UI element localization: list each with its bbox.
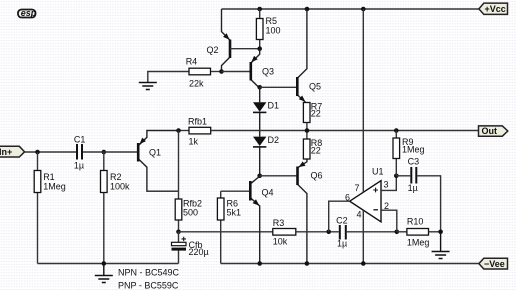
svg-text:PNP - BC559C: PNP - BC559C — [118, 280, 179, 290]
resistor R9 — [393, 131, 425, 176]
svg-text:5k1: 5k1 — [227, 208, 242, 218]
junction dot output node R7/R8 — [305, 128, 310, 133]
wire Q1 emitter node to Rfb1 — [179, 130, 190, 132]
junction dot Rfb2 / Cfb / feedback line — [176, 230, 181, 235]
junction dot R2 top — [102, 150, 107, 155]
svg-text:−Vee: −Vee — [484, 259, 505, 269]
ESP logo — [18, 8, 37, 18]
resistor R4 — [148, 57, 222, 89]
svg-text:220µ: 220µ — [189, 247, 209, 257]
resistor Rfb2 — [175, 131, 202, 232]
capacitor C2 — [336, 216, 348, 249]
svg-text:R10: R10 — [407, 217, 424, 227]
resistor R7 — [303, 101, 322, 130]
diode D2 — [253, 135, 279, 176]
junction dot C2 / U1 pin6 feedback — [326, 230, 331, 235]
ground symbol (R10/C3) — [432, 232, 450, 259]
svg-text:1µ: 1µ — [337, 239, 347, 249]
svg-text:Q4: Q4 — [262, 188, 274, 198]
svg-text:In+: In+ — [0, 147, 12, 157]
svg-text:22: 22 — [311, 108, 321, 118]
Out tag — [479, 126, 508, 136]
svg-text:22k: 22k — [189, 78, 204, 88]
wire In+ to C1 — [25, 151, 76, 153]
transistor Q1 — [138, 131, 178, 192]
ground symbol (R4) — [139, 83, 157, 90]
wire pin2 node to R10 — [397, 231, 407, 233]
wire C2 to U1 pin2 node — [347, 231, 397, 233]
wire Q3 collector node to Q5 base — [260, 86, 298, 88]
resistor Rfb1 — [188, 116, 211, 146]
svg-text:1µ: 1µ — [74, 161, 84, 171]
svg-text:R1: R1 — [43, 172, 55, 182]
wire output rail Rfb1 to Out tag — [211, 130, 479, 132]
junction dot out rail / R9 — [394, 128, 399, 133]
wire U1 pin 6 output to feedback node — [329, 201, 350, 232]
transistor Q2 — [207, 9, 231, 72]
svg-text:7: 7 — [355, 183, 360, 193]
junction dot Vee rail / Q4 emitter — [257, 261, 262, 266]
wire -Vee rail — [221, 263, 479, 265]
svg-text:R4: R4 — [186, 57, 198, 67]
junction dot Q1 emitter / Rfb1 / Rfb2 node — [176, 128, 181, 133]
resistor R8 — [303, 131, 322, 160]
wire U1 pin 7 supply from +Vcc rail — [362, 9, 364, 192]
junction node Q3 collector / D1 / Q5 base — [257, 85, 262, 90]
transistor Q3 — [251, 49, 274, 89]
svg-text:3: 3 — [384, 180, 389, 190]
svg-text:Rfb1: Rfb1 — [188, 116, 207, 126]
junction node Q2 collector / R4 / Q3 base — [219, 69, 224, 74]
resistor R6 — [217, 191, 241, 263]
wire R6 top to Q4 base — [221, 190, 251, 192]
junction dot U1 pin3 / R9 / C3 — [394, 174, 399, 179]
-Vee power tag — [479, 258, 508, 269]
svg-text:R3: R3 — [273, 218, 285, 228]
ground symbol (main) — [95, 264, 113, 283]
svg-text:NPN - BC549C: NPN - BC549C — [118, 268, 180, 278]
transistor Q5 — [297, 9, 321, 104]
+Vcc power tag — [479, 3, 508, 14]
svg-text:C1: C1 — [74, 134, 86, 144]
svg-text:esp: esp — [21, 8, 37, 18]
transistor Q4 — [250, 176, 273, 263]
svg-text:1µ: 1µ — [408, 183, 418, 193]
junction dot ground line — [102, 261, 107, 266]
junction node D2 / Q4 collector / Q6 base — [257, 174, 262, 179]
svg-text:Q2: Q2 — [207, 45, 219, 55]
transistor Q6 — [298, 159, 323, 264]
svg-text:500: 500 — [183, 208, 198, 218]
svg-text:22: 22 — [311, 145, 321, 155]
svg-text:R2: R2 — [110, 172, 122, 182]
wire U1 pin 4 supply to -Vee rail — [362, 210, 364, 263]
wire R3 to C2 — [296, 231, 339, 233]
junction node R5 bottom / Q2 base / Q3 emitter — [257, 46, 262, 51]
svg-text:1k: 1k — [189, 136, 199, 146]
wire feedback line Cfb node to R3 — [179, 231, 273, 233]
resistor R1 — [34, 152, 66, 264]
junction dot top rail / U1 pin7 — [361, 7, 366, 12]
wire Q2 base to R5/Q3 emitter node — [230, 48, 260, 50]
junction dot Vee rail / Q6 collector — [305, 261, 310, 266]
svg-text:+Vcc: +Vcc — [485, 4, 506, 14]
resistor R2 — [101, 152, 131, 264]
svg-text:Q3: Q3 — [262, 66, 274, 76]
resistor R10 — [407, 217, 441, 248]
wire U1 pin 2 — [381, 210, 397, 232]
junction dot R1 top — [35, 150, 40, 155]
capacitor C1 — [74, 134, 86, 170]
svg-text:Q6: Q6 — [311, 171, 323, 181]
wire C1 to Q1 base — [83, 151, 137, 153]
op-amp U1 — [350, 167, 384, 222]
svg-text:Q5: Q5 — [309, 82, 321, 92]
svg-text:100k: 100k — [110, 182, 130, 192]
svg-text:U1: U1 — [372, 167, 384, 177]
svg-text:1Meg: 1Meg — [43, 182, 66, 192]
wire node to Q6 base — [260, 175, 298, 177]
capacitor Cfb (electrolytic) — [172, 232, 209, 264]
junction dot Vee rail / U1 pin4 — [361, 261, 366, 266]
svg-text:Q1: Q1 — [149, 148, 161, 158]
svg-text:4: 4 — [357, 210, 362, 220]
svg-text:10k: 10k — [273, 237, 288, 247]
resistor R3 — [273, 218, 296, 247]
svg-text:D1: D1 — [268, 101, 280, 111]
resistor R5 — [256, 9, 280, 49]
junction dot U1 pin2 / R10 — [395, 230, 400, 235]
svg-text:100: 100 — [266, 25, 281, 35]
junction dot top rail / R5 — [257, 7, 262, 12]
wire node to Q3 base — [222, 71, 251, 73]
wire ground line (R1/R2/Cfb) — [38, 263, 179, 265]
junction dot top rail / Q5 collector — [305, 7, 310, 12]
svg-text:C2: C2 — [336, 216, 348, 226]
svg-text:1Meg: 1Meg — [407, 238, 430, 248]
wire U1 pin 3 to R9/C3 node — [381, 176, 396, 191]
svg-text:Out: Out — [482, 126, 498, 136]
capacitor C3 — [396, 157, 440, 232]
In+ input tag — [0, 146, 25, 157]
diode D1 — [253, 87, 279, 136]
wire top +Vcc rail — [222, 8, 479, 10]
svg-text:D2: D2 — [268, 135, 280, 145]
junction dot R10 / C3 / ground — [438, 230, 443, 235]
svg-text:C3: C3 — [408, 157, 420, 167]
svg-text:1Meg: 1Meg — [402, 144, 425, 154]
